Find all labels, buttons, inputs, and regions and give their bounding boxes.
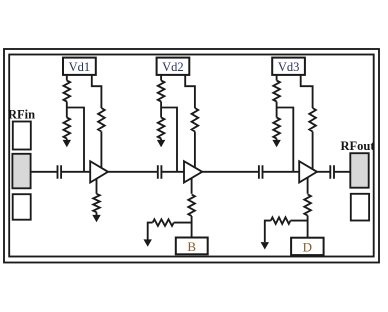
wire C3 to amp A3 input (263, 171, 299, 173)
wire amp A2 source to R2s (191, 178, 193, 194)
wire R2s to box B (191, 216, 193, 238)
resistor R3b (gate bias lower) (273, 118, 280, 139)
wire Vd3 to gate resistor R3a (276, 75, 278, 81)
wire A2 output to C3 (202, 171, 258, 173)
wire RFin pad to C1 (31, 171, 57, 173)
resistor R2a (gate bias upper) (158, 81, 165, 102)
resistor R2g (bypass to ground) (174, 222, 192, 224)
wire R2g to ground (148, 223, 153, 241)
wire R2a to node N2 (160, 102, 162, 108)
node N1 wire to amp input (67, 108, 84, 172)
inductor/resistor L1 (drain bias) (98, 108, 105, 132)
resistor R3s (stage3 source) (304, 194, 311, 215)
capacitor C1 (58, 165, 62, 179)
svg-text:Vd3: Vd3 (278, 60, 300, 74)
wire C4 to RFout pad (334, 171, 350, 173)
wire Vd1 to drain inductor L1 (92, 75, 102, 108)
wire R1s to ground (96, 212, 98, 216)
resistor R3a (gate bias upper) (273, 81, 280, 102)
chip outer border (4, 49, 379, 263)
wire R1a to node N1 (66, 102, 68, 108)
pad P3 (input bottom, white) (13, 194, 31, 220)
ground arrow G1a (63, 140, 71, 147)
wire R3b to ground (276, 139, 278, 141)
chip inner border (9, 55, 374, 257)
node N2 wire to amp input (161, 108, 177, 172)
node N3 wire to amp input (277, 108, 294, 172)
wire Vd3 to drain inductor L3 (301, 75, 313, 108)
svg-text:RFout: RFout (341, 139, 376, 153)
op-amp A2 (gain stage 2) (184, 161, 202, 182)
wire R3g to ground (265, 221, 271, 242)
wire L2 to amp A2 output (194, 132, 196, 168)
pad P4 (RFout signal pad, gray) (350, 153, 368, 188)
wire R3s to box D (307, 216, 309, 238)
bias supply box Vd3 (272, 58, 305, 75)
wire L1 to amp A1 output (100, 132, 102, 168)
resistor R3g (bypass to ground) (290, 220, 307, 222)
wire A3 output to C4 (317, 171, 330, 173)
svg-text:B: B (187, 239, 196, 254)
svg-text:RFin: RFin (8, 108, 35, 122)
ground arrow G3 (261, 242, 269, 249)
inductor/resistor L3 (drain bias) (309, 108, 316, 132)
wire C1 to amp A1 input (62, 171, 91, 173)
bias supply box Vd1 (63, 58, 96, 75)
bias supply box Vd2 (157, 58, 190, 75)
wire R1b to ground (66, 139, 68, 141)
svg-text:D: D (303, 239, 312, 254)
wire node N3 to resistor R3b (276, 108, 278, 118)
pad P1 (input top, white) (13, 122, 31, 150)
terminal box B (176, 238, 208, 255)
svg-text:Vd1: Vd1 (69, 60, 91, 74)
resistor R1s (stage1 source) (93, 194, 100, 212)
terminal box D (291, 238, 324, 255)
capacitor C2 (158, 165, 162, 179)
ground arrow G2a (157, 140, 165, 147)
svg-text:Vd2: Vd2 (162, 60, 184, 74)
wire amp A1 source to R1s (96, 179, 98, 194)
wire R3a to node N3 (276, 102, 278, 108)
pad P2 (RFin signal pad, gray) (12, 154, 30, 189)
wire node N1 to resistor R1b (66, 108, 68, 118)
resistor R1a (gate bias upper) (64, 81, 71, 102)
wire amp A3 source to R3s (307, 178, 309, 194)
wire L3 to amp A3 output (312, 132, 314, 170)
wire A1 output to C2 (108, 171, 157, 173)
ground arrow G1s (92, 215, 100, 222)
wire Vd1 to gate resistor R1a (66, 75, 68, 81)
wire node N2 to resistor R2b (160, 108, 162, 118)
ground arrow G2 (144, 239, 152, 246)
wire C2 to amp A2 input (162, 171, 184, 173)
inductor/resistor L2 (drain bias) (192, 108, 199, 132)
capacitor C4 (330, 165, 334, 179)
capacitor C3 (259, 165, 263, 179)
op-amp A3 (gain stage 3) (299, 161, 317, 182)
pad P5 (output bottom, white) (351, 194, 369, 221)
resistor R2b (gate bias lower) (158, 118, 165, 139)
ground arrow G3a (272, 140, 280, 147)
wire Vd2 to drain inductor L2 (185, 75, 195, 108)
wire R2b to ground (160, 139, 162, 141)
wire Vd2 to gate resistor R2a (160, 75, 162, 81)
op-amp A1 (gain stage 1) (90, 161, 108, 182)
resistor R2s (stage2 source) (188, 195, 195, 217)
resistor R1b (gate bias lower) (64, 118, 71, 139)
